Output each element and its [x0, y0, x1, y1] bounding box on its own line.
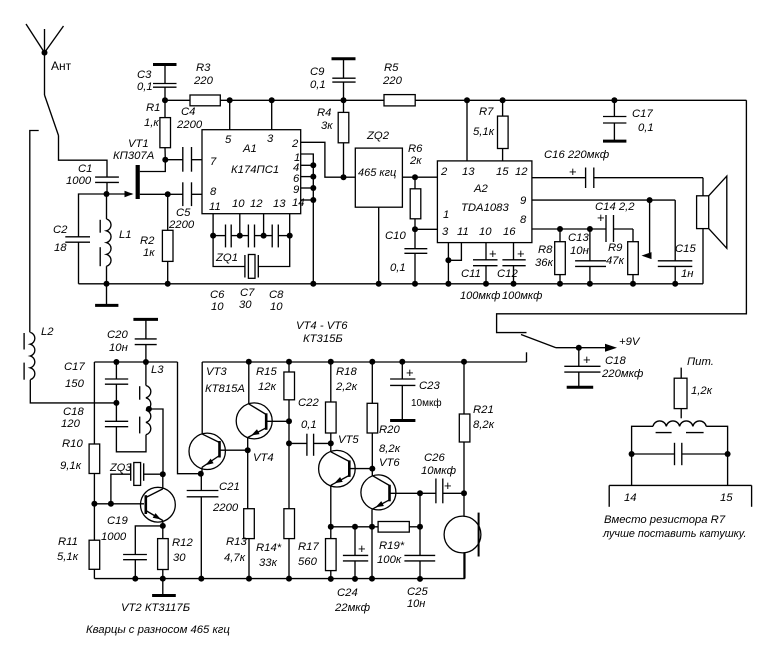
svg-text:L1: L1 — [119, 229, 132, 241]
capacitor C23 — [390, 359, 442, 421]
wire VT3 emitter feed — [178, 362, 201, 474]
svg-text:10: 10 — [270, 301, 283, 313]
svg-text:L3: L3 — [151, 364, 164, 376]
node VT3 emitter — [198, 471, 204, 477]
resistor R18 — [326, 359, 358, 444]
wire inset supply — [680, 368, 682, 379]
svg-text:1: 1 — [443, 209, 449, 221]
svg-text:C8: C8 — [269, 289, 284, 301]
svg-text:8,2к: 8,2к — [473, 419, 495, 431]
wire A2 pin12 out — [532, 178, 703, 196]
svg-text:R8: R8 — [538, 244, 553, 256]
svg-text:R15: R15 — [256, 366, 277, 378]
label pin 15 — [720, 492, 733, 504]
wire VT5 base — [349, 468, 372, 470]
resistor R13 — [224, 450, 254, 581]
capacitor C10 — [385, 229, 427, 286]
capacitor C16 — [544, 149, 610, 188]
svg-text:C22: C22 — [298, 397, 319, 409]
svg-text:R20: R20 — [379, 424, 400, 436]
svg-text:220мкф: 220мкф — [601, 368, 644, 380]
svg-text:0,1: 0,1 — [310, 79, 326, 91]
node R15/C22 — [286, 440, 292, 446]
capacitor C14 — [595, 201, 635, 242]
node VT1 drain — [162, 157, 168, 163]
wire A2 pin8 out — [532, 229, 633, 242]
svg-text:R3: R3 — [196, 62, 211, 74]
node R20/VT5 base/VT6 — [369, 466, 375, 472]
svg-text:8: 8 — [520, 214, 527, 226]
wire A1 pin2 to ZQ2 — [301, 142, 344, 177]
wire VT1 drain — [140, 160, 166, 172]
svg-text:33к: 33к — [259, 557, 278, 569]
svg-text:R12: R12 — [172, 537, 193, 549]
node input tank — [104, 191, 110, 197]
node ZQ2/R6 — [412, 174, 418, 180]
wire A1 pin5 — [229, 100, 231, 129]
op-amp U A2 box — [437, 161, 532, 243]
svg-text:8: 8 — [210, 186, 217, 198]
svg-text:C17: C17 — [632, 108, 653, 120]
svg-text:C14 2,2: C14 2,2 — [595, 201, 635, 213]
svg-text:R9: R9 — [608, 242, 623, 254]
svg-text:5,1к: 5,1к — [57, 551, 79, 563]
svg-text:C16 220мкф: C16 220мкф — [544, 149, 610, 161]
wire node to C2 — [79, 194, 107, 237]
svg-text:C7: C7 — [240, 287, 255, 299]
antenna switch blade — [45, 95, 59, 136]
svg-text:2200: 2200 — [176, 119, 203, 131]
node R21/C26/mic — [461, 490, 467, 496]
capacitor C7 — [237, 225, 264, 312]
ground chassis — [95, 284, 118, 306]
resistor 1,2k inset — [674, 378, 713, 418]
capacitor C24 — [334, 527, 371, 614]
capacitor C17 tank — [64, 359, 128, 403]
svg-text:A1: A1 — [242, 143, 257, 155]
capacitor C5 — [168, 182, 202, 231]
wire A1 pin14 stub — [301, 197, 317, 203]
svg-text:14: 14 — [292, 197, 305, 209]
svg-text:R18: R18 — [336, 366, 357, 378]
svg-text:22мкф: 22мкф — [334, 602, 371, 614]
svg-text:C17: C17 — [64, 361, 85, 373]
svg-text:R14*: R14* — [256, 542, 282, 554]
capacitor C25 — [404, 527, 435, 610]
svg-text:VT4: VT4 — [253, 452, 274, 464]
svg-text:C23: C23 — [419, 380, 440, 392]
svg-text:10: 10 — [211, 301, 224, 313]
svg-text:К174ПС1: К174ПС1 — [231, 164, 279, 176]
svg-text:30: 30 — [239, 299, 252, 311]
svg-text:R10: R10 — [62, 438, 83, 450]
svg-text:+: + — [358, 541, 366, 556]
svg-text:C6: C6 — [210, 289, 225, 301]
svg-text:18: 18 — [54, 242, 67, 254]
svg-text:A2: A2 — [473, 183, 489, 195]
resistor R20 — [367, 359, 401, 469]
wire inset to pins — [632, 454, 728, 485]
resistor R7 — [473, 97, 508, 161]
svg-text:10: 10 — [479, 226, 492, 238]
svg-text:C26: C26 — [424, 452, 445, 464]
svg-text:C15: C15 — [675, 243, 696, 255]
svg-text:15: 15 — [720, 492, 733, 504]
wire A1 pin1 stub — [301, 154, 314, 284]
wire ZQ2 bottom — [376, 207, 382, 287]
inductor L3 — [140, 362, 165, 435]
svg-text:TDA1083: TDA1083 — [461, 202, 509, 214]
svg-text:Ант: Ант — [51, 59, 72, 73]
transistor VT3 — [189, 366, 245, 474]
svg-text:30: 30 — [173, 552, 186, 564]
wire ZQ2 out — [402, 176, 437, 178]
wire antenna input to C1 — [59, 136, 108, 178]
capacitor C17 — [603, 97, 654, 141]
svg-text:L2: L2 — [41, 326, 54, 338]
node inset left — [629, 451, 635, 457]
svg-text:0,1: 0,1 — [638, 122, 654, 134]
transistor VT5 — [319, 434, 360, 527]
svg-text:+: + — [517, 246, 525, 261]
node inset right — [725, 451, 731, 457]
svg-text:R1: R1 — [146, 102, 160, 114]
resistor R1 — [144, 100, 171, 159]
svg-text:10мкф: 10мкф — [421, 465, 457, 477]
svg-text:R6: R6 — [408, 143, 423, 155]
svg-text:120: 120 — [61, 418, 81, 430]
svg-text:4,7к: 4,7к — [224, 552, 246, 564]
svg-text:2: 2 — [440, 166, 448, 178]
crystal ZQ1 — [213, 236, 290, 279]
capacitor C4 — [165, 106, 203, 172]
potentiometer R9 — [606, 242, 638, 287]
label VT2 type — [121, 602, 190, 614]
capacitor C18 tank — [61, 403, 146, 452]
capacitor C18 supply — [564, 348, 644, 388]
wire VT1 source — [140, 193, 168, 195]
wire R15 to R14 — [288, 421, 290, 508]
wire VT2 base — [94, 503, 144, 505]
capacitor C1 — [66, 163, 119, 194]
capacitor C8 — [261, 225, 293, 314]
svg-text:КП307А: КП307А — [113, 150, 154, 162]
svg-text:10н: 10н — [570, 245, 589, 257]
node R6/C10 — [412, 226, 418, 232]
svg-text:+: + — [489, 246, 497, 261]
svg-text:C4: C4 — [181, 106, 195, 118]
svg-text:3к: 3к — [321, 120, 333, 132]
capacitor C20 — [107, 319, 158, 365]
svg-text:1,2к: 1,2к — [691, 385, 713, 397]
node L3 tap — [146, 406, 152, 412]
label pin 14 — [624, 492, 637, 504]
wire bottom rail lower section — [94, 553, 465, 579]
svg-text:11: 11 — [457, 226, 469, 238]
node ZQ3/VT2 collector — [160, 471, 166, 477]
capacitor C21 — [187, 474, 240, 582]
svg-text:1000: 1000 — [101, 531, 127, 543]
wire +9V switch blade — [521, 335, 556, 348]
svg-text:220: 220 — [382, 75, 403, 87]
node A1 bus rail — [310, 281, 316, 287]
svg-text:C13: C13 — [568, 232, 589, 244]
svg-text:C18: C18 — [63, 406, 84, 418]
inductor L1 — [100, 194, 131, 284]
svg-text:R11: R11 — [58, 536, 78, 548]
svg-text:12: 12 — [515, 166, 528, 178]
svg-text:C19: C19 — [107, 515, 128, 527]
svg-text:10н: 10н — [407, 598, 425, 610]
wire bottom rail top section — [79, 283, 704, 285]
svg-text:лучше поставить катушку.: лучше поставить катушку. — [602, 528, 746, 540]
svg-text:C5: C5 — [176, 207, 191, 219]
svg-text:+: + — [583, 352, 591, 367]
svg-text:2,2к: 2,2к — [335, 381, 358, 393]
node VT1 source — [165, 191, 171, 197]
wire A1 pin4 stub — [301, 162, 317, 168]
svg-text:220: 220 — [193, 75, 214, 87]
node R2 bottom rail — [165, 281, 171, 287]
wire switch lower contact — [526, 352, 528, 362]
svg-text:+9V: +9V — [619, 336, 641, 348]
svg-text:100мкф: 100мкф — [502, 290, 542, 302]
svg-text:R5: R5 — [384, 62, 399, 74]
wire A2 pin13 up — [464, 97, 470, 161]
svg-text:R4: R4 — [317, 107, 331, 119]
svg-text:VT4 - VT6: VT4 - VT6 — [296, 320, 348, 332]
wire L3 tap — [149, 409, 163, 474]
svg-text:465 кгц: 465 кгц — [358, 167, 396, 179]
resistor R8 — [535, 226, 565, 287]
node VT4 emitter/VT3 base — [245, 447, 251, 453]
transistor VT1 channel bar — [113, 138, 154, 199]
svg-text:Пит.: Пит. — [687, 356, 714, 368]
svg-text:100к: 100к — [377, 554, 402, 566]
svg-text:C18: C18 — [605, 355, 626, 367]
wire rail right edge down — [497, 100, 747, 332]
svg-text:КТ315Б: КТ315Б — [303, 333, 343, 345]
svg-text:КТ815А: КТ815А — [205, 383, 245, 395]
wire A1 pin12 lead — [263, 214, 265, 236]
label crystals note — [86, 624, 230, 636]
svg-text:150: 150 — [65, 378, 85, 390]
svg-text:ZQ2: ZQ2 — [366, 130, 390, 142]
svg-text:R7: R7 — [479, 106, 494, 118]
node C17/C18/L2 — [113, 400, 119, 406]
transistor VT4 — [236, 403, 274, 464]
resistor R5 — [382, 62, 415, 106]
ground VT2 emitter — [152, 579, 176, 596]
node VT5 emitter — [328, 524, 334, 530]
svg-text:C11: C11 — [461, 268, 481, 280]
filter ZQ2 — [344, 130, 403, 207]
svg-text:47к: 47к — [606, 255, 625, 267]
wire VT4 collector — [246, 359, 252, 404]
svg-text:C12: C12 — [497, 268, 518, 280]
resistor R10 — [60, 438, 100, 504]
label VT4-VT6 — [296, 320, 348, 345]
svg-text:+: + — [406, 365, 414, 380]
svg-text:1000: 1000 — [66, 175, 92, 187]
node rail pin3 — [269, 97, 275, 103]
wire A1 pin13 lead — [289, 214, 291, 236]
capacitor C26 — [420, 452, 464, 503]
node C24 top — [352, 524, 358, 530]
wire VT3 base — [220, 449, 248, 451]
capacitor inset — [632, 443, 728, 465]
wire A2 pin9 out — [532, 197, 675, 261]
node R18/C22/VT5 — [328, 440, 334, 446]
wire A2 pin11 lead — [448, 243, 461, 261]
svg-text:10н: 10н — [109, 342, 128, 354]
wire C25 column — [419, 493, 421, 527]
wire emitter link — [331, 524, 378, 530]
svg-text:Вместо резистора R7: Вместо резистора R7 — [604, 514, 726, 526]
wire A1 pin11 lead — [212, 214, 214, 236]
node R10/R11/base — [91, 501, 97, 507]
svg-text:+: + — [569, 164, 577, 179]
crystal ZQ3 — [108, 462, 163, 507]
node VT2 emitter — [160, 523, 166, 529]
node rail pin5 — [227, 97, 233, 103]
inductor L2 — [24, 326, 116, 403]
wire top rail — [165, 99, 746, 101]
svg-text:+: + — [444, 478, 452, 493]
svg-text:VT6: VT6 — [379, 457, 400, 469]
wire rail lower left — [94, 362, 177, 444]
svg-text:R21: R21 — [473, 404, 494, 416]
speaker BA1 — [697, 176, 727, 284]
capacitor C12 — [497, 243, 542, 302]
svg-text:C10: C10 — [385, 230, 406, 242]
resistor R21 — [459, 359, 494, 494]
svg-text:15: 15 — [496, 166, 509, 178]
wire A1 pin10 lead — [239, 214, 241, 236]
wire A1 pin3 — [271, 100, 273, 129]
resistor R4 — [317, 100, 349, 177]
node VT4 base/R15 — [286, 418, 292, 424]
svg-text:VT2 КТ3117Б: VT2 КТ3117Б — [121, 602, 190, 614]
svg-text:0,1: 0,1 — [390, 262, 406, 274]
wire antenna switch lower contact — [30, 131, 39, 333]
svg-text:C3: C3 — [137, 69, 152, 81]
svg-text:R19*: R19* — [379, 540, 405, 552]
svg-text:VT3: VT3 — [206, 366, 227, 378]
microphone BM1 — [444, 493, 481, 579]
svg-text:11: 11 — [209, 201, 221, 213]
svg-text:9,1к: 9,1к — [60, 460, 82, 472]
wire VT4 base — [266, 420, 289, 422]
svg-text:3: 3 — [442, 226, 449, 238]
node C3/R1 rail — [162, 97, 168, 103]
svg-text:7: 7 — [210, 156, 217, 168]
wire VT6 base — [390, 492, 421, 494]
capacitor C6 — [210, 225, 240, 314]
svg-text:9: 9 — [520, 195, 527, 207]
transistor VT6 — [361, 469, 396, 582]
svg-text:2: 2 — [291, 138, 299, 150]
wire A1 pin9 stub — [301, 185, 317, 191]
capacitor C19 — [101, 515, 163, 582]
node R19/C25 — [417, 524, 423, 530]
svg-text:1к: 1к — [143, 247, 155, 259]
wire R9 wiper — [642, 200, 652, 259]
resistor R11 — [57, 504, 100, 579]
svg-text:0,1: 0,1 — [301, 419, 317, 431]
resistor R14 — [256, 509, 295, 582]
svg-text:12к: 12к — [258, 381, 277, 393]
svg-text:C25: C25 — [407, 586, 428, 598]
capacitor C9 — [310, 59, 356, 101]
svg-text:C24: C24 — [337, 587, 358, 599]
wire A2 pin3 bottom — [445, 243, 451, 287]
wire A1 pin6 stub — [301, 174, 317, 180]
resistor R15 — [256, 359, 295, 422]
svg-text:VT5: VT5 — [338, 434, 359, 446]
svg-text:36к: 36к — [535, 257, 554, 269]
capacitor C11 — [460, 243, 500, 302]
svg-text:14: 14 — [624, 492, 637, 504]
svg-text:5,1к: 5,1к — [473, 126, 495, 138]
svg-text:2200: 2200 — [168, 219, 195, 231]
resistor R19 — [377, 522, 420, 567]
wire inset IC edge — [609, 485, 751, 506]
resistor R3 — [190, 62, 220, 106]
capacitor C15 — [658, 243, 697, 287]
svg-text:VT1: VT1 — [128, 138, 149, 150]
svg-text:1н: 1н — [681, 268, 694, 280]
svg-text:R13: R13 — [226, 536, 247, 548]
svg-text:2200: 2200 — [212, 502, 239, 514]
svg-text:8,2к: 8,2к — [379, 443, 401, 455]
svg-text:C21: C21 — [219, 481, 240, 493]
antenna — [26, 24, 72, 95]
svg-text:100мкф: 100мкф — [460, 290, 500, 302]
svg-text:C1: C1 — [78, 163, 92, 175]
svg-text:16: 16 — [503, 226, 516, 238]
svg-text:ZQ3: ZQ3 — [109, 462, 132, 474]
label Pit — [687, 356, 714, 368]
svg-text:C2: C2 — [53, 224, 68, 236]
resistor R2 — [140, 194, 173, 283]
svg-text:5: 5 — [225, 134, 232, 146]
node R4/ZQ2 — [341, 174, 347, 180]
capacitor C22 — [289, 397, 331, 456]
svg-text:12: 12 — [250, 198, 263, 210]
svg-text:3: 3 — [267, 133, 274, 145]
junction L1 bottom — [104, 281, 110, 287]
svg-text:560: 560 — [298, 556, 318, 568]
node VT6 base/C25 col — [417, 490, 423, 496]
wire rail lower right — [202, 362, 526, 434]
svg-text:10мкф: 10мкф — [411, 397, 442, 409]
wire VT1 gate — [107, 191, 134, 197]
svg-text:C9: C9 — [310, 66, 325, 78]
resistor R17 — [298, 527, 336, 582]
label inset note — [602, 514, 746, 540]
svg-text:0,1: 0,1 — [137, 81, 153, 93]
op-amp U A1 box — [202, 130, 305, 214]
capacitor C3 — [137, 65, 177, 101]
svg-text:1,к: 1,к — [144, 117, 159, 129]
svg-text:ZQ1: ZQ1 — [215, 252, 238, 264]
svg-text:13: 13 — [462, 166, 475, 178]
capacitor C13 — [568, 226, 606, 287]
transistor VT2 — [141, 474, 176, 526]
wire +9V feed — [556, 336, 641, 352]
svg-text:2к: 2к — [409, 155, 422, 167]
